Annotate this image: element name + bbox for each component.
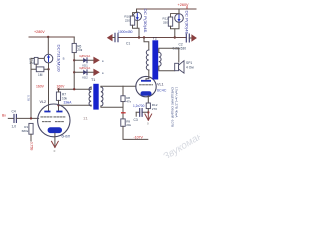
- wire input line x31 down to grid: [30, 69, 32, 118]
- svg-text:160V: 160V: [57, 85, 66, 89]
- wire R8 to node: [122, 102, 124, 119]
- svg-text:1000х450: 1000х450: [118, 30, 133, 34]
- junction at (58.5,89.2): [57, 88, 59, 90]
- svg-text:С4: С4: [12, 110, 16, 114]
- wire top rail y10: [137, 8, 197, 10]
- capacitor C4: [14, 114, 16, 122]
- VL1 grid (dashed): [140, 84, 153, 86]
- VL1 anode bar: [141, 80, 151, 82]
- wire C4 to grid: [16, 117, 38, 119]
- speaker SP1: [175, 63, 179, 70]
- T1 secondary winding: [101, 87, 103, 106]
- svg-text:DC7313(M)10: DC7313(M)10: [56, 45, 60, 72]
- wire VL2 cathode to ground: [54, 133, 56, 147]
- wire R12 to node: [147, 109, 149, 113]
- svg-text:4 Ом: 4 Ом: [186, 66, 194, 70]
- tube VL1 envelope: [136, 76, 156, 96]
- wire R10 top to V3 top: [133, 13, 138, 16]
- svg-text:Т1: Т1: [91, 78, 95, 82]
- svg-text:-107V: -107V: [134, 135, 144, 139]
- svg-text:220: 220: [125, 18, 130, 22]
- wire R9 down and to bias rail: [123, 126, 148, 139]
- svg-text:SP1: SP1: [186, 61, 192, 65]
- svg-text:33мА: 33мА: [64, 100, 73, 104]
- VL2 anode b (bar): [56, 111, 62, 113]
- wire bias left vertical: [30, 58, 32, 69]
- wire anode to T1 primary bottom y105.2: [59, 104, 92, 106]
- junction branch A on B+: [138, 36, 140, 38]
- red node marker cathode: [147, 111, 149, 113]
- resistor R6 (vertical): [72, 43, 76, 52]
- T2 primary winding: [146, 50, 149, 70]
- resistor R7 (vertical): [56, 92, 60, 100]
- resistor R3 (horizontal in bias bottom wire): [36, 67, 44, 72]
- svg-text:Б: Б: [63, 57, 65, 61]
- junction at (74.2,72.3): [73, 71, 75, 73]
- wire bottoms branch A: [133, 21, 140, 38]
- resistor R11: [168, 17, 172, 26]
- svg-text:VD2: VD2: [82, 76, 88, 80]
- wire diode branch 2: [74, 71, 93, 73]
- svg-text:VL2: VL2: [40, 100, 47, 104]
- wire C1 stub left: [112, 37, 115, 39]
- resistor R8 (vertical): [121, 96, 125, 102]
- terminal arrow in (left): [107, 34, 113, 41]
- wire bottoms branch B: [171, 22, 180, 37]
- svg-text:6С4С: 6С4С: [157, 89, 167, 93]
- junction at (74.2,89.2): [73, 88, 75, 90]
- wire rail corner to V3: [136, 9, 138, 12]
- wire C2 stub right: [189, 37, 191, 39]
- svg-text:17мА Uк=1,27В 40мА: 17мА Uк=1,27В 40мА: [175, 87, 179, 118]
- T1 primary winding: [89, 87, 91, 106]
- wire T1 secondary top to VL1 grid: [101, 85, 136, 88]
- svg-text:20к: 20к: [126, 123, 131, 127]
- svg-text:680к: 680к: [22, 129, 29, 133]
- current source V3: [133, 12, 141, 20]
- red node marker: [122, 112, 125, 114]
- wire T1 secondary bottom to bias chain: [101, 106, 123, 107]
- wire bias top y58.4: [31, 57, 44, 59]
- red tick to label: [186, 7, 188, 9]
- wire cathode down: [147, 96, 149, 103]
- svg-text:КД521А: КД521А: [80, 54, 91, 58]
- wire rail drop to V4: [178, 9, 180, 14]
- capacitor C2 bars: [186, 34, 189, 42]
- wire diode branch 1: [74, 59, 93, 61]
- svg-text:1,0: 1,0: [12, 125, 17, 129]
- wire grid node down: [122, 86, 124, 96]
- wire left anode drop x48: [48, 69, 50, 111]
- T1 core: [93, 84, 98, 110]
- svg-text:160V: 160V: [36, 85, 45, 89]
- VL2 cathode a: [42, 121, 51, 123]
- terminal arrow out 1: [93, 57, 99, 64]
- svg-text:330: 330: [163, 20, 168, 24]
- wire rail corner down x74.2: [73, 37, 75, 43]
- wire T2 secondary bottom to speaker: [159, 66, 175, 71]
- wire input stub: [8, 117, 14, 119]
- svg-text:Т2: Т2: [153, 37, 157, 41]
- VL2 grid b (dashed): [54, 116, 65, 118]
- junction branch B on B+: [174, 36, 176, 38]
- T2 core: [152, 40, 158, 79]
- T2 secondary winding: [159, 52, 161, 66]
- wire left rail y37: [29, 36, 74, 38]
- resistor R10: [130, 16, 134, 25]
- svg-text:1,2х700: 1,2х700: [133, 104, 145, 108]
- svg-text:С1: С1: [126, 41, 130, 45]
- svg-text:DC P(30)4Б: DC P(30)4Б: [184, 11, 188, 36]
- C3 stub: [135, 112, 137, 116]
- wire T2 primary bottom to VL1 anode: [146, 70, 149, 80]
- ground arrow VL1 cathode: [145, 112, 152, 120]
- junction T2 feed: [143, 36, 145, 38]
- junction at (36.2,58.4): [35, 57, 37, 59]
- junction node at (48.5,69.3): [47, 68, 49, 70]
- wire CCS bottom to node: [48, 63, 50, 69]
- svg-text:6Н6П: 6Н6П: [62, 135, 71, 139]
- junction at (58.5,105.2): [57, 104, 59, 106]
- junction at (31,118.4): [30, 117, 32, 119]
- svg-text:С3: С3: [134, 118, 138, 122]
- resistor R12 (vertical): [146, 103, 150, 109]
- svg-text:Вх: Вх: [2, 114, 6, 118]
- capacitor C3 bars: [140, 109, 142, 117]
- wire T1 primary bottom stub: [90, 104, 92, 107]
- wire R11 top to V4 top: [171, 14, 180, 17]
- capacitor C1 bars: [115, 33, 118, 41]
- VL2 anode a (bar): [44, 111, 50, 113]
- diode VD1: [83, 58, 87, 63]
- svg-text:0,75В: 0,75В: [30, 142, 34, 151]
- resistor R9 (vertical): [121, 119, 125, 126]
- VL2 cathode b: [55, 121, 64, 123]
- tube VL2 envelope: [38, 104, 70, 137]
- svg-text:47к: 47к: [126, 99, 131, 103]
- current source V4: [175, 14, 184, 23]
- wire bias bottom y69.3: [31, 68, 49, 70]
- svg-text:СМЕЩЕНИЕ ОБЩИЙ -107В: СМЕЩЕНИЕ ОБЩИЙ -107В: [171, 87, 175, 127]
- junction at (74.2,60.3): [73, 59, 75, 61]
- ground arrow below VL2: [52, 141, 59, 147]
- VL2 grid a (dashed): [41, 116, 52, 118]
- VL2 heater (blue pill): [48, 127, 62, 133]
- svg-text:КД521А: КД521А: [80, 66, 91, 70]
- wire B+ y37.5: [118, 37, 186, 39]
- wire T2 secondary top to speaker: [159, 48, 179, 62]
- svg-text:0,7В: 0,7В: [27, 95, 31, 101]
- terminal arrow out (right): [191, 34, 197, 41]
- svg-text:1М: 1М: [38, 73, 43, 77]
- diode VD2: [83, 70, 87, 75]
- svg-text:1:1: 1:1: [83, 117, 88, 121]
- VL1 cathode (blue pill): [141, 91, 152, 96]
- wire bypass y112.3: [136, 111, 148, 113]
- resistor R2 (vertical): [34, 57, 38, 64]
- terminal arrow out 2: [93, 69, 99, 76]
- svg-text:VL1: VL1: [157, 82, 164, 86]
- wire T1 primary top stub: [90, 87, 92, 89]
- wire rail drop to CCS V1: [47, 37, 49, 54]
- svg-text:DC P(30)4Б: DC P(30)4Б: [143, 9, 147, 34]
- wire below R1: [30, 134, 32, 141]
- current source V1: [44, 54, 53, 63]
- svg-text:+280V: +280V: [34, 30, 45, 34]
- wire 160V horizontal y89.2: [59, 88, 92, 90]
- wire node 160V vertical: [73, 53, 75, 90]
- svg-text:270: 270: [152, 107, 157, 111]
- svg-text:20к: 20к: [77, 48, 83, 52]
- resistor R1 (grid leak, vertical): [29, 123, 33, 134]
- wire B+ to T2 primary top: [144, 38, 149, 51]
- junction on rail at x48: [47, 36, 49, 38]
